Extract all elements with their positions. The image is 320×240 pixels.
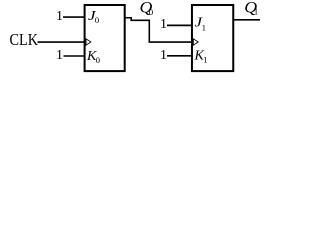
svg-text:1: 1 — [203, 55, 207, 65]
node Q0 label — [140, 0, 154, 17]
svg-text:0: 0 — [96, 55, 101, 65]
pin J1 label — [195, 16, 207, 33]
wire Q1 output — [233, 19, 260, 21]
svg-text:0: 0 — [95, 15, 100, 25]
wire CLK to U1 clock — [38, 41, 85, 43]
flip-flop U1 box — [85, 5, 125, 71]
pin K0 label — [86, 49, 101, 65]
svg-text:1: 1 — [202, 23, 206, 33]
wire 1 to J0 — [63, 16, 85, 18]
flip-flop U2 box — [192, 5, 233, 71]
clock triangle U1 — [86, 39, 91, 45]
clock triangle U2 — [193, 39, 198, 45]
pin J0 label — [88, 9, 100, 25]
svg-text:1: 1 — [56, 48, 63, 63]
wire 1 to K1 — [167, 55, 192, 57]
svg-text:1: 1 — [160, 48, 167, 63]
node Q1 label — [244, 0, 258, 16]
svg-text:1: 1 — [254, 6, 259, 16]
svg-text:1: 1 — [160, 17, 167, 32]
svg-text:0: 0 — [149, 7, 154, 17]
wire Q0 from U1 to U2 clock — [125, 18, 192, 42]
svg-text:1: 1 — [56, 9, 63, 24]
svg-text:CLK: CLK — [10, 30, 39, 49]
pin K1 label — [194, 49, 208, 65]
wire 1 to J1 — [167, 24, 192, 26]
wire 1 to K0 — [64, 55, 85, 57]
